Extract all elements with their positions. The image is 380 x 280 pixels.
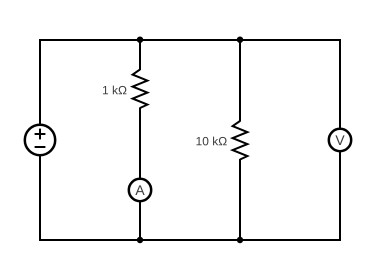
- ammeter A: [129, 179, 151, 201]
- wire: second branch upper lead to resistor R2: [239, 40, 241, 122]
- wire: left branch (through voltage source): [39, 39, 41, 241]
- wire: second branch lower lead from R2 to bottom rail: [239, 159, 241, 240]
- resistor R1 (1 kΩ) zigzag: [133, 70, 148, 109]
- wire: bottom rail: [40, 239, 340, 241]
- resistor R2 (10 kΩ) zigzag: [233, 121, 248, 160]
- node C (junction dot, bottom of branch 1): [137, 237, 143, 243]
- value label 1 kΩ: [103, 86, 127, 95]
- voltage source V1 (circle with + and -): [25, 125, 55, 155]
- node A (junction dot, top of branch 1): [137, 37, 143, 43]
- wire: middle branch upper lead to resistor R1: [139, 40, 141, 70]
- wire: top rail from node A to node B to top-right corner: [40, 39, 340, 41]
- node B (junction dot, top of branch 2): [237, 37, 243, 43]
- voltmeter V: [329, 129, 351, 151]
- value label 10 kΩ: [196, 137, 226, 146]
- wire: right branch (through voltmeter): [339, 39, 341, 241]
- node D (junction dot, bottom of branch 2): [237, 237, 243, 243]
- wire: middle branch from R1 to bottom rail (through ammeter): [139, 108, 141, 241]
